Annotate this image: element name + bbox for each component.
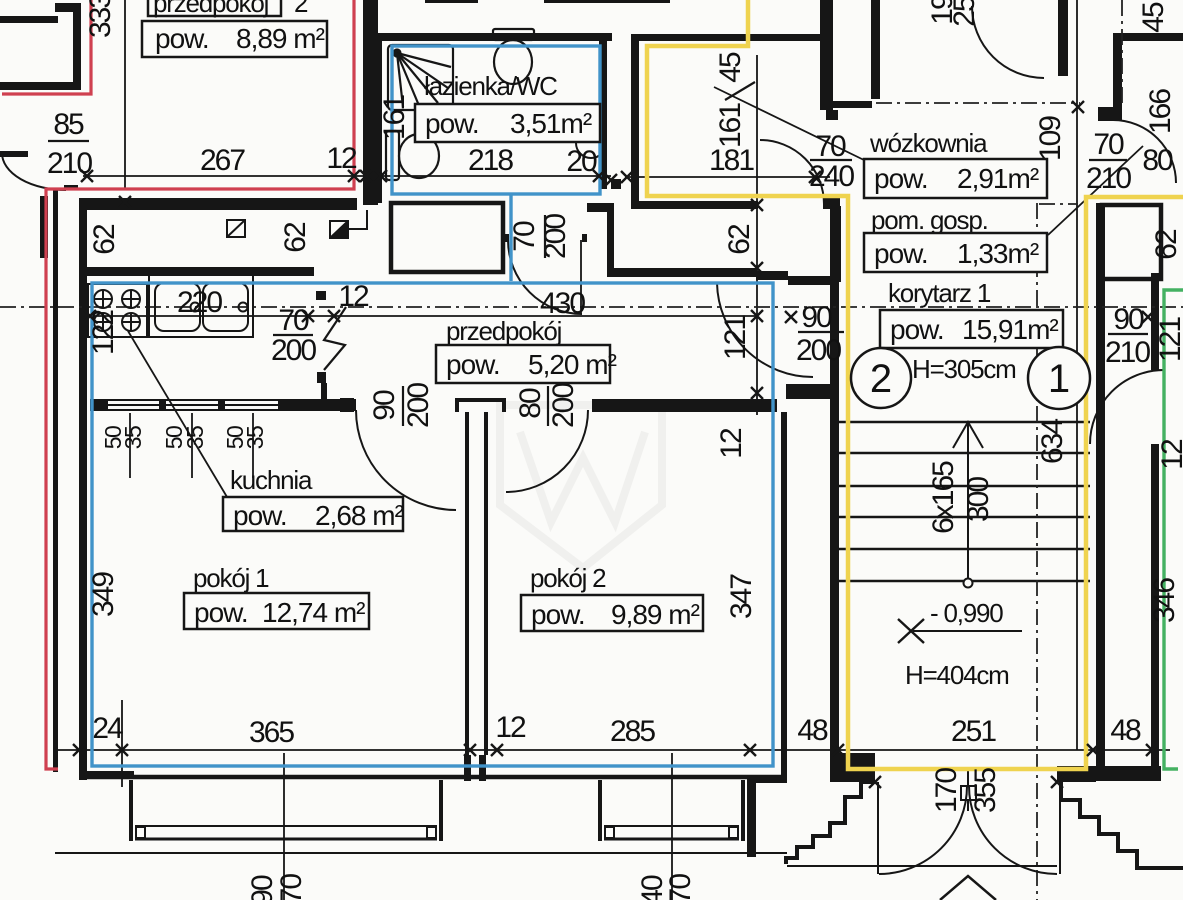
svg-text:170: 170 [930,768,963,813]
leader pom gosp [1048,146,1143,235]
svg-text:200: 200 [271,334,316,367]
bathroom top wall [375,33,612,41]
shower [388,45,453,110]
bottom right band piece pokoj2 [747,775,787,783]
top right wall horizontal [1113,33,1183,41]
svg-text:pow.: pow. [446,349,500,380]
bottom arrow triangle [940,876,996,900]
svg-text:pokój 1: pokój 1 [193,563,269,593]
svg-text:8,89 m²: 8,89 m² [236,23,325,54]
svg-text:634: 634 [1036,419,1069,464]
svg-text:121: 121 [1154,317,1183,362]
svg-text:2,68 m²: 2,68 m² [315,500,404,531]
right bottom band [1095,766,1161,781]
leader kuchnia [128,331,230,502]
bathroom right wall [599,33,607,189]
top room top wall [631,34,826,41]
svg-text:2: 2 [870,357,892,401]
top edge wall slivers [425,0,478,3]
svg-text:85: 85 [53,108,84,141]
vertical ext x122 [121,700,123,787]
entrance left steps [786,782,875,864]
svg-text:365: 365 [249,716,294,749]
partition bottom posts [464,755,471,781]
svg-text:48: 48 [1110,714,1141,747]
svg-text:przedpokój: przedpokój [153,0,269,18]
svg-text:15,91m²: 15,91m² [962,314,1058,345]
svg-text:2,91m²: 2,91m² [957,163,1039,194]
entrance double door arcs [879,786,967,874]
svg-text:355: 355 [969,768,1002,813]
svg-text:kuchnia: kuchnia [230,465,313,495]
svg-text:121: 121 [719,315,752,360]
przedpokoj top wall [607,268,757,277]
svg-text:251: 251 [951,715,996,748]
vent circle [576,128,606,158]
svg-text:170: 170 [275,874,308,900]
svg-text:3,51m²: 3,51m² [510,108,592,139]
svg-text:122: 122 [87,310,120,355]
top right door arc [1113,120,1176,183]
kitchen band ext lines [129,413,131,478]
fraction bars vertical (rotated labels) [403,82,755,426]
svg-text:12: 12 [1156,439,1183,470]
svg-text:109: 109 [1034,116,1067,161]
svg-text:349: 349 [87,572,120,617]
svg-text:200: 200 [402,383,435,428]
top middle door arc [972,6,1044,78]
pow 2,91 box [864,159,1047,198]
main left wall [79,198,87,780]
przedpokoj2 bottom wall [81,198,357,210]
svg-text:170: 170 [664,874,697,900]
top room door arc [760,140,824,204]
TICKS [73,101,1158,788]
horizontal main axis [0,306,1183,308]
entrance right steps [1061,782,1183,868]
stairwell right wall [1096,203,1105,781]
right apartment door arc [1090,370,1164,444]
leader 70/240 [714,87,866,161]
svg-text:łazienka/WC: łazienka/WC [424,71,557,101]
green apartment outline [1164,290,1183,769]
svg-text:wózkownia: wózkownia [869,128,988,158]
svg-text:- 0,990: - 0,990 [930,598,1003,628]
svg-text:pow.: pow. [890,314,944,345]
svg-text:45: 45 [714,52,747,83]
svg-text:285: 285 [610,715,655,748]
korytarz niche stub wall [786,384,839,399]
top room right wall to edge [820,0,833,110]
svg-text:H=404cm: H=404cm [905,660,1009,690]
circle 2 [851,348,911,408]
svg-text:1: 1 [1048,357,1070,401]
dim line kitchen/przedpokoj [83,315,757,317]
pow 2,68 box [223,497,403,531]
svg-text:korytarz 1: korytarz 1 [888,278,991,308]
bathroom bottom-right wall bits [611,179,621,189]
toilet left [386,131,439,180]
svg-text:9,89 m²: 9,89 m² [611,599,700,630]
balcony 1 [131,780,441,841]
bottom dim line [55,749,1170,751]
entrance ground line [787,865,1057,867]
svg-text:12: 12 [326,142,357,175]
stairwell left wall [830,196,839,782]
kitchen bottom band posts [90,399,108,411]
svg-text:H=305cm: H=305cm [912,354,1016,384]
svg-text:70: 70 [278,304,309,337]
svg-text:24: 24 [92,712,123,745]
svg-text:12: 12 [495,711,526,744]
svg-text:12: 12 [715,428,748,459]
pow 12,74 box [184,593,369,629]
przedpokoj 2 label box (cut at top) [148,0,281,16]
svg-text:70: 70 [508,221,541,252]
door nubs bathroom [582,234,587,242]
svg-text:25: 25 [948,0,981,27]
svg-text:przedpokój: przedpokój [446,316,562,346]
top room bottom wall [631,201,758,209]
svg-text:200: 200 [547,383,580,428]
kitchen top wall [79,267,314,276]
svg-text:300: 300 [962,477,995,522]
pokoj1 door post [340,398,354,412]
dimension number labels horizontal [92,142,1173,749]
entrance center post [961,786,976,800]
svg-text:2: 2 [294,0,308,18]
blue apartment outline [92,46,773,766]
svg-text:35: 35 [120,426,146,449]
red apartment outline [2,0,354,769]
top middle wall column [871,0,880,99]
pow 15,91 box [880,310,1063,348]
yellow common outline [647,0,1183,769]
svg-text:90: 90 [1113,303,1144,336]
top right axis [876,102,1080,104]
svg-text:210: 210 [47,147,92,180]
svg-text:pow.: pow. [233,500,287,531]
dim line top [83,175,611,177]
right wall column [1151,273,1159,370]
svg-text:pokój 2: pokój 2 [530,563,606,593]
left wall piece mid [0,151,28,157]
svg-text:161: 161 [714,103,747,148]
right ground line [1148,867,1183,869]
svg-text:240: 240 [809,160,854,193]
bottom thin wall under pokoj1/2 [83,775,786,780]
pow 1,33 box [864,233,1047,272]
top right wall vertical [1113,41,1122,121]
svg-text:90: 90 [801,301,832,334]
right small room box [1102,205,1161,279]
svg-text:pow.: pow. [155,23,209,54]
circle 1 [1028,347,1090,409]
svg-text:210: 210 [1086,162,1131,195]
leader lines [128,87,1143,502]
stairs treads [839,422,1090,581]
svg-text:1,33m²: 1,33m² [957,238,1039,269]
apt2 entrance door arc [717,283,813,377]
stairs arrow [953,422,983,579]
balcony2 center line [671,753,673,900]
niche left wall vertical [834,206,841,282]
kitchen bottom band thin outline [90,400,356,410]
svg-text:pow.: pow. [531,599,585,630]
bottom-left corner thick [79,771,134,779]
svg-text:pow.: pow. [874,163,928,194]
pow 9,89 box [521,595,703,631]
przedpokoj-pokoj2 wall [592,399,777,412]
svg-text:35: 35 [242,426,268,449]
svg-text:80: 80 [1142,144,1173,177]
pow 8,89 box [142,21,327,57]
pokoj1 door arc [356,410,456,510]
svg-text:218: 218 [468,144,513,177]
partition top block [455,398,506,402]
entrance jambs [878,769,1060,874]
pokoj2 door arc [506,410,588,492]
top door leaf wall [1058,0,1068,76]
svg-text:166: 166 [1144,89,1177,134]
balcony1 center line [283,753,285,900]
stove [88,284,147,337]
pow 5,20 box [436,345,610,383]
top-left balcony door arc [2,153,66,190]
pokoj2 right wall [781,412,787,775]
vertical dim line 333 [124,0,126,190]
svg-text:90: 90 [368,390,401,421]
vertical dim line x1077 [1076,0,1078,750]
white block near bathroom door [391,203,503,272]
kitchen door post [316,291,326,300]
toilet top [493,29,534,84]
kitchen door lower post and stub [317,372,326,383]
neighbor balcony top-left wall [0,16,58,23]
svg-text:70: 70 [815,130,846,163]
balcony 2 [600,780,743,841]
niche step wall [756,271,788,280]
vertical axis through stairs [1036,203,1038,900]
kitchen accordion door zigzag [324,307,346,370]
svg-text:333: 333 [84,0,117,38]
svg-text:45: 45 [1137,2,1170,33]
svg-text:70: 70 [1093,128,1124,161]
svg-text:220: 220 [177,286,222,319]
vertical dim line x757 [756,55,758,415]
svg-text:pow.: pow. [194,597,248,628]
przedpokoj2 right wall [363,0,378,205]
svg-text:267: 267 [200,144,245,177]
svg-text:347: 347 [725,574,758,619]
sink [149,275,253,337]
entrance left pier [836,753,875,782]
svg-text:12,74 m²: 12,74 m² [262,597,365,628]
svg-text:35: 35 [182,426,208,449]
bathroom left wall [375,33,382,203]
svg-text:80: 80 [514,388,547,419]
svg-text:12: 12 [338,280,369,313]
fraction labels [47,108,1150,369]
bathroom door arc [508,240,582,314]
pow 3,51 box [415,104,600,142]
left outer wall [53,190,58,772]
svg-text:pow.: pow. [874,238,928,269]
svg-text:62: 62 [279,222,312,253]
svg-text:pom. gosp.: pom. gosp. [871,205,988,235]
entrance right band [1057,766,1096,782]
svg-text:6x165: 6x165 [927,461,960,534]
niche lower wall [788,276,839,285]
ground line left [55,852,787,854]
partition lines pokoj1/2 [467,412,486,755]
top room left wall [631,34,639,207]
svg-text:161: 161 [378,95,411,140]
svg-text:210: 210 [1105,336,1150,369]
svg-text:62: 62 [88,224,121,255]
pom gosp boundary [1039,203,1078,205]
chimney squares [227,220,348,238]
svg-text:346: 346 [1148,578,1181,623]
watermark [500,405,662,568]
svg-text:pow.: pow. [425,108,479,139]
svg-text:62: 62 [723,224,756,255]
svg-text:5,20 m²: 5,20 m² [528,349,617,380]
svg-text:20: 20 [566,145,597,178]
svg-text:200: 200 [796,334,841,367]
svg-text:48: 48 [797,714,828,747]
svg-text:62: 62 [1150,229,1183,260]
